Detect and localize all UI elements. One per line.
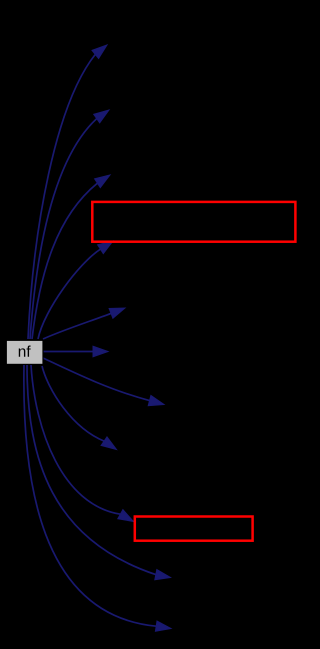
node nf (current node, grey) [6,340,43,364]
edge nf to target 8 [42,366,117,450]
edge nf to target 5 [43,308,125,339]
edge nf to target 2 [30,110,109,339]
edge nf to big red box [38,241,113,339]
edge nf to target 10 [27,365,171,580]
truncated node box (small, red) [135,517,253,541]
edge nf to small red box [31,365,134,522]
edge nf to top target [28,45,107,339]
edge nf to target 7 [43,358,164,406]
edge nf to target 6 (horizontal) [43,346,108,357]
truncated node box (large, red) [92,202,295,242]
edge nf to bottom target [24,365,171,631]
edge nf to target 3 [32,175,110,339]
